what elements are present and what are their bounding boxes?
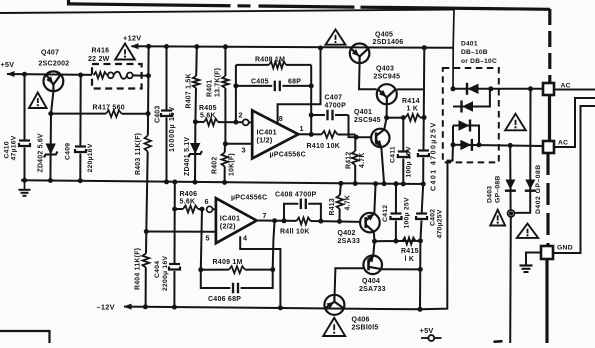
resistor R407 1.5K [195,47,198,76]
svg-text:5.6K: 5.6K [200,112,216,119]
svg-text:R416: R416 [92,48,110,55]
pin 4 supply wire to -12V [240,236,280,308]
svg-text:C412: C412 [382,205,389,222]
svg-text:C410: C410 [4,141,11,158]
wire Q405 base to Q403 [359,63,377,89]
wire Q403 emitter [386,104,388,118]
svg-text:R410 10K: R410 10K [307,143,341,150]
+5V output wire [7,73,92,76]
transistor Q407 [46,75,53,85]
-12V rail [124,307,420,310]
svg-text:R417 560: R417 560 [93,105,125,112]
svg-text:C409: C409 [65,143,72,160]
diode D403 GP-08B [509,145,511,210]
svg-text:100µ 25V: 100µ 25V [406,146,413,177]
svg-text:8: 8 [279,114,283,123]
bridge diode 1 [466,83,468,95]
bridge diode row1 wire to AC [453,88,543,90]
svg-text:C403: C403 [155,106,162,123]
resistor R409 1M [201,269,229,271]
outer chassis dashed border right side [548,9,551,83]
warning triangle top middle [326,30,346,45]
ground bus wire [21,180,424,184]
svg-text:2SD1406: 2SD1406 [373,39,404,46]
warning triangle near +12V [115,44,135,60]
svg-text:Q402: Q402 [338,230,356,237]
terminal AC 2 [543,141,554,153]
wire DC- return to -12V rail [420,145,453,309]
transistor Q402 2SA33 [364,217,367,228]
transistor Q405 2SD1406 [351,49,360,57]
ground symbol right [520,264,533,266]
capacitor C411 100u 25V [402,118,404,151]
capacitor C410 47u16V [24,74,26,139]
resistor R405 5.6K to pin 2 [195,121,204,123]
svg-text:D403: D403 [487,186,494,203]
output wire pin1 [298,133,321,135]
zener diode ZD401 5.1V [194,122,196,182]
svg-text:AC: AC [558,140,568,147]
resistor R404 11K(F) [143,254,150,268]
pin 2 inverting input circle [243,119,249,125]
transistor Q404 2SA733 [367,259,370,270]
svg-text:D401: D401 [461,41,478,48]
svg-text:100µ 25V: 100µ 25V [404,197,411,228]
svg-text:13.7K(F): 13.7K(F) [215,68,222,97]
svg-text:47µ16V: 47µ16V [11,135,18,160]
svg-text:5: 5 [206,234,210,243]
svg-text:6: 6 [205,197,209,206]
wire Q407 emitter to ground bus [50,91,53,180]
warning triangle near eyelet [490,210,505,226]
warning triangle below Q406 [323,318,345,336]
diode D402 GP-08B [514,89,530,213]
wire Q404 base to Q406 [335,268,364,295]
resistor R403 11K(F) [145,136,151,152]
svg-text:+12V: +12V [123,33,141,42]
wire Q402 collector from bus [374,184,375,214]
svg-text:R401: R401 [207,80,214,97]
cable GND to edge [553,106,595,253]
+12V rail [132,46,454,48]
zener diode ZD402 5.6V [46,144,56,155]
cable AC2 to edge [554,98,595,147]
svg-text:220µ16V: 220µ16V [87,143,94,172]
svg-text:C401 4700µ25V: C401 4700µ25V [431,121,438,191]
bridge rectifier D401 dashed box [443,68,499,162]
svg-text:R408 1M: R408 1M [255,57,285,64]
bridge diode 2 [460,101,462,113]
svg-text:R415: R415 [401,248,419,255]
svg-text:µPC4556C: µPC4556C [231,195,267,202]
AC1 wire right [554,89,595,91]
svg-text:GND: GND [557,245,573,252]
svg-text:2: 2 [239,111,243,120]
svg-text:Q407: Q407 [41,50,59,57]
capacitor C409 220u16V [79,75,81,146]
resistor R402 10K(F) [224,144,226,153]
resistor R406 5.6K to pin 6 [175,208,183,210]
svg-text:2SA33: 2SA33 [338,238,361,245]
ground symbol [24,180,26,190]
svg-text:2200µ 16V: 2200µ 16V [162,256,169,291]
svg-text:2SC2002: 2SC2002 [39,60,70,67]
svg-text:R403 11K(F): R403 11K(F) [135,133,142,175]
svg-text:R407 1.5K: R407 1.5K [186,73,193,108]
svg-text:R414: R414 [402,98,420,105]
svg-text:C406 68P: C406 68P [208,296,241,303]
svg-text:2SA733: 2SA733 [359,286,386,293]
svg-text:R406: R406 [180,191,198,198]
transistor Q403 2SC945 [378,89,387,97]
svg-text:1: 1 [300,124,304,133]
terminal GND [541,246,553,259]
svg-text:3: 3 [242,146,246,155]
svg-text:R409 1M: R409 1M [213,259,243,266]
op-amp U=IC401 (1/2) [252,110,298,158]
svg-text:R412: R412 [346,152,353,169]
svg-text:AC: AC [561,83,571,90]
svg-text:Q405: Q405 [375,32,393,39]
svg-text:R413: R413 [329,198,336,215]
wire Q401 collector [384,118,386,130]
svg-text:C407: C407 [325,95,343,102]
inner board border top [0,10,454,14]
GND wire to ground symbol [526,253,541,265]
svg-text:R404 11K(F): R404 11K(F) [135,248,142,290]
pin 6 inverting input circle [207,206,213,212]
capacitor C405 68P feedback [236,85,272,87]
svg-text:10K(F): 10K(F) [229,153,236,176]
svg-text:D402 GP–08B: D402 GP–08B [535,164,542,214]
svg-text:R402: R402 [212,157,219,174]
capacitor C401 4700u25V [423,48,426,150]
svg-text:Q401: Q401 [354,109,372,116]
terminal AC 1 [543,83,554,95]
bridge diode 4 [460,140,471,150]
wire output2 to feedback [273,221,275,270]
svg-text:1 K: 1 K [407,106,419,113]
resistor R408 1M feedback [236,64,269,66]
resistor R417 560 [51,113,106,115]
pin 8 supply wire [278,48,321,123]
svg-text:(1/2): (1/2) [257,136,273,145]
node pin2 feedback junction [233,120,238,125]
fusible resistor R416 22ohm 2W (dashed safety box) [92,64,142,89]
svg-text:22 2W: 22 2W [88,56,110,63]
resistor R414 1K [387,117,406,119]
svg-text:2SBl0l5: 2SBl0l5 [352,325,379,332]
transistor Q406 2SB1015 [325,302,334,309]
svg-text:4.7K: 4.7K [345,195,352,211]
svg-text:µPC4556C: µPC4556C [270,152,306,159]
svg-text:7: 7 [263,211,267,220]
resistor R411 10K [297,218,311,225]
wire Q402-Q404 [373,241,374,255]
output wire pin 7 [257,220,297,222]
wire eyelet to bottom [509,217,512,343]
svg-text:R405: R405 [199,105,217,112]
wire feedback to output riser [310,65,312,134]
svg-text:Q404: Q404 [362,278,380,285]
capacitor C406 68P [201,270,231,288]
svg-text:+5V: +5V [1,60,15,69]
pin 3 wire [225,143,252,145]
wire pin6 feedback riser [201,209,202,270]
resistor R413 4.7K [340,183,341,195]
svg-text:Q403: Q403 [376,66,394,73]
wire Q402 emitter [373,232,376,241]
wire Q404 emitter [382,268,420,270]
svg-text:ZD402 5.6V: ZD402 5.6V [38,133,45,172]
svg-text:C402: C402 [430,209,437,226]
svg-text:l K: l K [405,256,415,263]
svg-text:C408 4700P: C408 4700P [275,192,317,199]
svg-text:2SC945: 2SC945 [354,117,381,124]
resistor R410 10K [322,131,338,138]
wire Q401 emitter to bus [381,147,384,184]
svg-text:(2/2): (2/2) [220,222,236,231]
capacitor C403 10000u 16V [166,47,168,110]
svg-text:C411: C411 [390,146,397,163]
svg-text:C405: C405 [251,78,269,85]
bridge diode row2 wire [453,89,490,107]
svg-text:DB–10B: DB–10B [461,49,488,56]
capacitor C402 470u25V [422,184,424,213]
svg-text:4.7K: 4.7K [359,152,366,168]
wire emitter row [375,240,421,242]
svg-text:Q406: Q406 [352,317,370,324]
capacitor C407 4700P [311,114,325,116]
warning triangle right of bridge [505,114,526,131]
wire inverting node riser [235,65,237,122]
svg-text:10000µ 16V: 10000µ 16V [169,106,176,152]
svg-text:2SC945: 2SC945 [374,74,401,81]
pin 5 wire [146,231,216,233]
junction eyelet [508,210,515,217]
capacitor C408 4700P [284,204,298,221]
svg-text:GP–08B: GP–08B [495,175,502,203]
svg-text:+5V: +5V [420,326,434,335]
outer chassis dashed border top [67,0,70,6]
bridge diode row3 wire [453,126,479,145]
wire +12V feed vertical column [147,46,150,135]
resistor R401 13.7K(F) [224,47,226,76]
warning triangle right lower [517,224,538,238]
bridge diode row4 wire to AC [453,145,543,146]
svg-text:68P: 68P [288,78,301,85]
svg-text:470µ25V: 470µ25V [437,209,444,238]
svg-text:C404: C404 [154,261,161,278]
svg-text:4: 4 [243,234,247,243]
svg-text:5.6K: 5.6K [180,199,196,206]
capacitor C404 2200u 16V [174,182,176,263]
svg-text:R4ll 10K: R4ll 10K [280,229,310,236]
inner board border right drop wire [452,10,455,48]
svg-text:4700P: 4700P [325,103,347,110]
truncated artwork mark bottom edge [494,340,503,343]
capacitor C412 100u 25V [395,184,397,213]
svg-text:–12V: –12V [97,303,115,312]
svg-text:ZD401 5.1V: ZD401 5.1V [184,137,191,176]
bridge diode 3 [459,120,470,130]
svg-text:or DB–10C: or DB–10C [461,58,497,65]
warning triangle below Q407 [29,93,47,109]
wire Q403 collector to C401 node [397,88,425,90]
transistor Q401 2SC945 [375,132,378,143]
resistor R415 1K [403,237,416,244]
adjacent board outline corner [0,331,50,343]
resistor R412 4.7K [354,135,356,152]
op-amp U=IC401 (2/2) [216,198,257,243]
